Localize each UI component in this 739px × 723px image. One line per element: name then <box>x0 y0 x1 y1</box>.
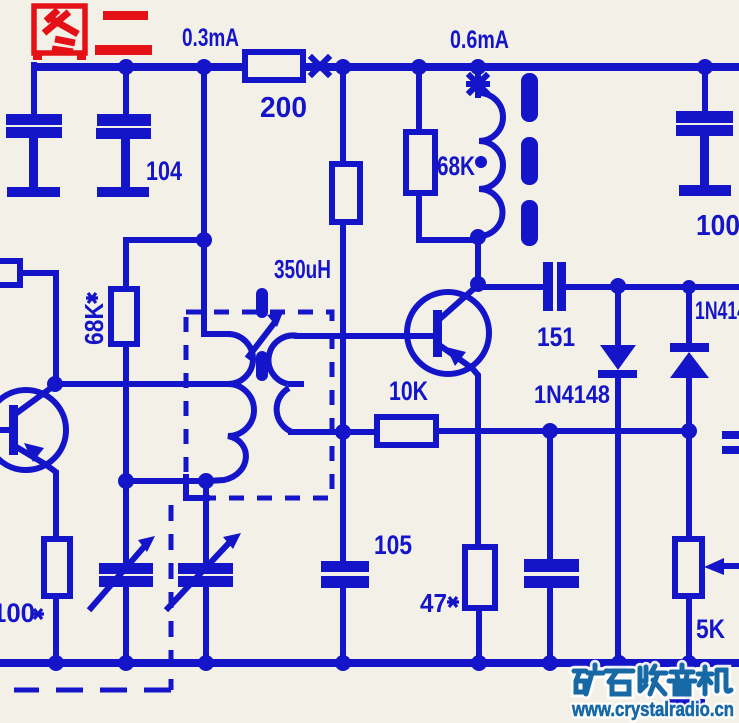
svg-text:151: 151 <box>537 322 575 352</box>
svg-text:0.3mA: 0.3mA <box>182 24 239 52</box>
svg-text:68K: 68K <box>437 151 475 181</box>
svg-text:350uH: 350uH <box>274 254 331 284</box>
svg-text:10K: 10K <box>389 376 428 406</box>
svg-text:0.6mA: 0.6mA <box>450 26 509 54</box>
svg-text:100: 100 <box>696 210 739 242</box>
svg-text:www.crystalradio.cn: www.crystalradio.cn <box>571 699 734 721</box>
svg-text:200: 200 <box>260 92 307 124</box>
svg-text:104: 104 <box>146 156 182 186</box>
svg-text:68K: 68K <box>79 303 109 345</box>
svg-text:5K: 5K <box>696 614 725 644</box>
svg-text:105: 105 <box>374 530 412 560</box>
svg-text:1N4148: 1N4148 <box>534 381 610 409</box>
svg-text:47: 47 <box>420 588 447 618</box>
svg-text:1N414: 1N414 <box>695 297 739 325</box>
svg-text:100: 100 <box>0 598 35 628</box>
